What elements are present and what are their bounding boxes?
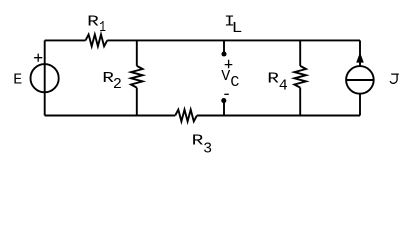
wire top-left segment bbox=[45, 39, 86, 41]
wire bottom-right segment bbox=[197, 115, 360, 117]
svg-text:1: 1 bbox=[99, 18, 106, 35]
svg-text:R: R bbox=[267, 71, 279, 87]
svg-text:E: E bbox=[13, 71, 22, 88]
wire left branch through source E bbox=[44, 40, 46, 115]
plus sign of VC bbox=[225, 60, 233, 69]
wire right branch top bbox=[359, 40, 361, 66]
minus sign of VC bbox=[224, 93, 229, 95]
svg-text:3: 3 bbox=[203, 140, 212, 157]
resistor R3 bbox=[175, 110, 197, 122]
wire top-right segment bbox=[107, 39, 360, 41]
svg-text:R: R bbox=[87, 14, 99, 30]
node dot VC bottom bbox=[221, 98, 226, 103]
resistor R1 bbox=[86, 35, 108, 47]
svg-text:R: R bbox=[192, 133, 204, 149]
wire bottom-left segment bbox=[45, 115, 176, 117]
wire R2 branch top bbox=[136, 40, 138, 66]
plus sign of source E bbox=[34, 54, 42, 62]
wire R2 branch bottom bbox=[136, 88, 138, 116]
svg-text:C: C bbox=[230, 74, 239, 91]
wire right branch bottom bbox=[359, 94, 361, 116]
wire R4 branch top bbox=[299, 40, 301, 66]
wire R4 branch bottom bbox=[299, 88, 301, 116]
svg-text:2: 2 bbox=[113, 76, 122, 93]
svg-text:L: L bbox=[232, 19, 243, 36]
node stub from VC bottom bbox=[223, 101, 225, 116]
resistor R2 bbox=[131, 66, 143, 88]
current source J diameter bar bbox=[346, 79, 373, 81]
resistor R4 bbox=[294, 66, 306, 88]
svg-text:4: 4 bbox=[279, 78, 288, 95]
current source J circle bbox=[346, 66, 374, 94]
node dot VC top bbox=[221, 51, 226, 56]
svg-text:V: V bbox=[221, 68, 230, 85]
node stub to VC top bbox=[223, 40, 225, 54]
label J (drawn glyph) bbox=[390, 74, 399, 83]
current source arrowhead bbox=[356, 52, 364, 62]
voltage source E circle bbox=[30, 64, 58, 92]
